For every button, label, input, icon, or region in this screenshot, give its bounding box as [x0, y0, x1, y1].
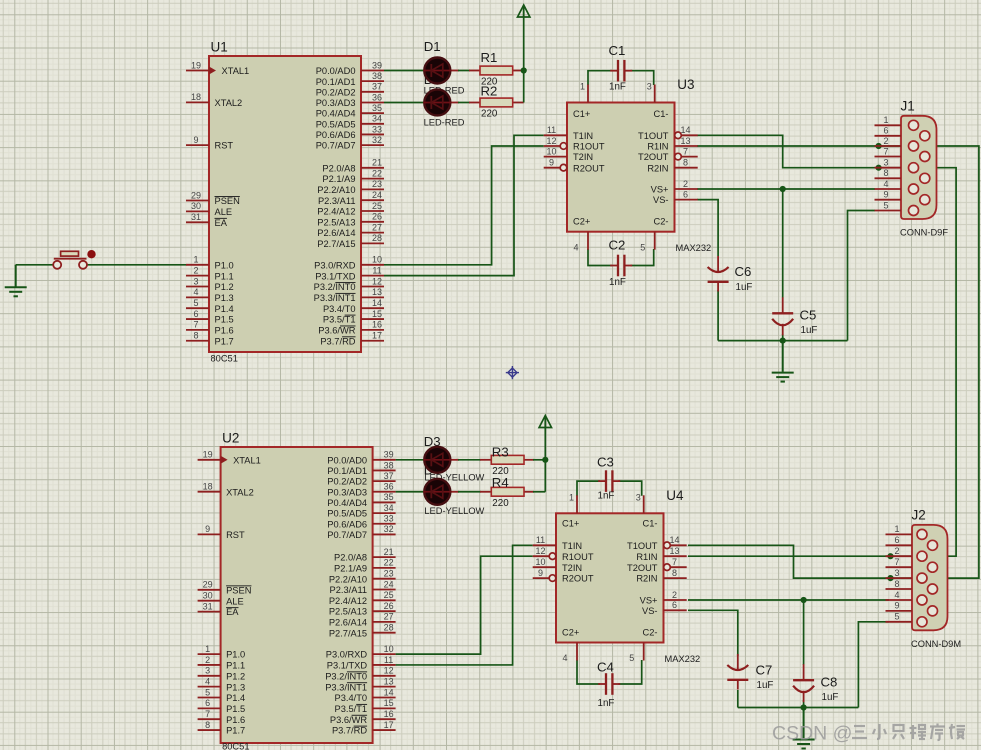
CSDN watermark [772, 723, 965, 745]
svg-text:MAX232: MAX232 [676, 243, 712, 253]
svg-text:C8: C8 [821, 675, 838, 690]
node VS+/C8 junction [801, 597, 807, 603]
U2 pin 12 P3.2/INT0 [373, 675, 396, 677]
svg-text:P1.6: P1.6 [226, 715, 245, 725]
svg-text:39: 39 [372, 60, 382, 70]
wire U4 VS- to C7 [688, 610, 738, 656]
svg-text:U2: U2 [222, 431, 239, 446]
wire R2 right lead to VCC rail [513, 101, 524, 103]
svg-text:P0.0/AD0: P0.0/AD0 [327, 455, 367, 465]
J2 holes [917, 529, 938, 626]
U4 pin 10 T2IN [533, 566, 556, 568]
svg-text:T1OUT: T1OUT [627, 541, 658, 551]
svg-text:P1.3: P1.3 [226, 682, 245, 692]
svg-text:P1.7: P1.7 [215, 336, 234, 346]
U2 pin 35 P0.4/AD4 [373, 501, 396, 503]
U1 pin 37 P0.2/AD2 [361, 91, 384, 93]
U4 pin 1 C1+ stub [576, 495, 578, 513]
svg-text:16: 16 [384, 709, 394, 719]
capacitor C4 1nF [598, 683, 606, 685]
svg-text:220: 220 [481, 108, 498, 119]
MAX232 U4 body [556, 513, 664, 642]
svg-text:38: 38 [372, 71, 382, 81]
svg-text:10: 10 [384, 644, 394, 654]
U1 pin 21 P2.0/A8 [361, 167, 384, 169]
svg-text:C7: C7 [756, 663, 773, 678]
svg-text:XTAL2: XTAL2 [226, 487, 254, 497]
U3 pin 10 T2IN [544, 156, 567, 158]
ground symbol top section [772, 341, 794, 382]
U3 pin 13 R1IN [675, 145, 698, 147]
U4 pin 8 R2IN [664, 577, 687, 579]
wire U2 P0.0 to LED D3 [396, 459, 426, 461]
ground symbol left of button [5, 265, 27, 297]
svg-text:29: 29 [203, 580, 213, 590]
wire U3 pin4 to C2 [588, 249, 612, 266]
svg-text:14: 14 [384, 687, 394, 697]
svg-text:80C51: 80C51 [211, 354, 238, 364]
svg-text:3: 3 [193, 276, 198, 286]
svg-text:CONN-D9M: CONN-D9M [911, 639, 961, 649]
svg-text:1nF: 1nF [598, 698, 615, 709]
svg-text:P0.7/AD7: P0.7/AD7 [327, 530, 367, 540]
U1 pin 17 P3.7/RD [361, 340, 384, 342]
svg-text:P2.3/A11: P2.3/A11 [330, 585, 368, 595]
U2 pin 3 P1.2 [198, 675, 221, 677]
svg-text:R1OUT: R1OUT [562, 552, 594, 562]
svg-text:12: 12 [546, 136, 556, 146]
svg-text:1uF: 1uF [757, 680, 774, 691]
node TXD net at J2 pin2 [887, 553, 893, 559]
wire U4 VS+ to J2 pin4 [688, 599, 889, 601]
U1 pin 26 P2.5/A13 [361, 221, 384, 223]
svg-text:17: 17 [384, 720, 394, 730]
J2 pin 4 stub [886, 599, 913, 601]
svg-text:4: 4 [573, 242, 578, 252]
U1 pin 1 P1.0 [186, 264, 209, 266]
U1 pin 24 P2.3/A11 [361, 199, 384, 201]
svg-text:P0.4/AD4: P0.4/AD4 [316, 109, 356, 119]
connector J2 body [912, 525, 948, 630]
svg-text:P1.7: P1.7 [226, 726, 245, 736]
origin marker [506, 366, 519, 379]
wire C4 to U4 pin5 [618, 660, 641, 684]
svg-text:P0.5/AD5: P0.5/AD5 [327, 509, 367, 519]
svg-text:C1-: C1- [643, 519, 658, 529]
svg-text:6: 6 [883, 126, 888, 136]
J2 pin 3 stub [886, 577, 913, 579]
wire R3 right lead to VCC rail [524, 459, 534, 461]
svg-text:R1IN: R1IN [647, 142, 668, 152]
svg-text:P1.4: P1.4 [226, 693, 245, 703]
wire C7 bottom to ground rail [737, 690, 739, 708]
svg-text:80C51: 80C51 [222, 742, 249, 750]
svg-text:P1.6: P1.6 [215, 326, 234, 336]
svg-text:7: 7 [672, 557, 677, 567]
svg-text:26: 26 [384, 601, 394, 611]
U1 pin 23 P2.2/A10 [361, 188, 384, 190]
svg-text:MAX232: MAX232 [665, 654, 701, 664]
U2 pin 25 P2.4/A12 [373, 599, 396, 601]
U4 pin 13 R1IN [664, 555, 687, 557]
svg-text:28: 28 [372, 233, 382, 243]
svg-text:P1.2: P1.2 [215, 282, 234, 292]
svg-text:13: 13 [669, 546, 679, 556]
capacitor C8 1uF [793, 679, 814, 681]
svg-text:P0.2/AD2: P0.2/AD2 [316, 87, 356, 97]
svg-text:P0.6/AD6: P0.6/AD6 [327, 519, 367, 529]
svg-text:1: 1 [569, 492, 574, 502]
U3 pin 3 C1- stub [654, 85, 656, 103]
svg-text:13: 13 [384, 676, 394, 686]
svg-text:36: 36 [372, 92, 382, 102]
resistor R4 220 [491, 487, 524, 496]
U1 pin 12 P3.2/INT0 [361, 286, 384, 288]
svg-text:P2.7/A15: P2.7/A15 [329, 628, 367, 638]
svg-text:19: 19 [203, 450, 213, 460]
svg-text:12: 12 [535, 546, 545, 556]
U1 pin 14 P3.4/T0 [361, 307, 384, 309]
svg-text:12: 12 [372, 276, 382, 286]
svg-text:25: 25 [384, 590, 394, 600]
power arrow VCC top [518, 5, 530, 17]
U1 pin 16 P3.6/WR [361, 329, 384, 331]
svg-text:P0.0/AD0: P0.0/AD0 [316, 66, 356, 76]
U3 pin 1 C1+ stub [587, 85, 589, 103]
svg-text:27: 27 [372, 222, 382, 232]
svg-text:R2IN: R2IN [647, 163, 668, 173]
wire U4 T1OUT to J2 pin3 [688, 545, 891, 578]
J1 pin 1 stub [875, 124, 902, 126]
svg-text:C1-: C1- [654, 109, 669, 119]
wire button to U1 P1.0 [87, 264, 187, 266]
svg-text:38: 38 [384, 460, 394, 470]
svg-text:CSDN @: CSDN @ [772, 723, 852, 745]
node R1IN net at J1 pin2 [876, 143, 882, 149]
LED D3 LED-YELLOW [423, 447, 451, 473]
svg-text:P1.0: P1.0 [215, 260, 234, 270]
svg-text:P0.1/AD1: P0.1/AD1 [316, 77, 356, 87]
svg-text:11: 11 [536, 535, 545, 545]
wire LED D1 to R1 [451, 70, 459, 72]
svg-text:R2OUT: R2OUT [573, 163, 605, 173]
svg-text:R1OUT: R1OUT [573, 142, 605, 152]
svg-text:LED-YELLOW: LED-YELLOW [424, 506, 484, 516]
svg-text:18: 18 [203, 482, 213, 492]
svg-text:P3.7/RD: P3.7/RD [332, 726, 367, 736]
svg-text:J2: J2 [912, 507, 926, 522]
svg-text:U3: U3 [677, 77, 694, 92]
svg-text:P0.4/AD4: P0.4/AD4 [327, 498, 367, 508]
svg-text:3: 3 [647, 82, 652, 92]
wire U4 pin1 to C3 [577, 481, 600, 496]
J2 pin 1 stub [886, 533, 913, 535]
U2 pin 11 P3.1/TXD [373, 664, 396, 666]
U3 pin 11 T1IN [544, 134, 567, 136]
wire C8 tap from VS+ net [803, 600, 805, 665]
J1 pin 7 stub [875, 156, 902, 158]
svg-text:36: 36 [384, 482, 394, 492]
svg-text:P3.2/INT0: P3.2/INT0 [325, 671, 367, 681]
J1 pin 8 stub [875, 177, 902, 179]
capacitor C5 1uF [772, 312, 793, 314]
U4 pin 12 R1OUT [533, 555, 550, 557]
U2 pin 16 P3.6/WR [373, 718, 396, 720]
U1 pin 11 P3.1/TXD [361, 275, 384, 277]
node R1/VCC junction [521, 67, 527, 73]
svg-text:24: 24 [384, 579, 394, 589]
svg-text:XTAL2: XTAL2 [215, 98, 243, 108]
svg-text:ALE: ALE [226, 596, 244, 606]
U2 pin 6 P1.5 [198, 707, 221, 709]
connector J1 body [901, 116, 937, 219]
LED D1 LED-RED [423, 58, 451, 84]
svg-text:10: 10 [535, 557, 545, 567]
svg-text:P3.2/INT0: P3.2/INT0 [314, 282, 356, 292]
wire U2 P3.0/RXD to U4 R1OUT [396, 556, 533, 654]
node ground rail bottom junction [801, 704, 807, 710]
svg-text:32: 32 [372, 135, 382, 145]
svg-text:P3.1/TXD: P3.1/TXD [315, 271, 356, 281]
wire U4 R1IN to J2 pin2 [688, 555, 891, 557]
wire LED D4 to R4 [451, 491, 459, 493]
U2 pin 30 ALE [198, 600, 221, 602]
capacitor C7 1uF [727, 665, 748, 670]
J2 pin 6 stub [886, 544, 913, 546]
svg-text:C1+: C1+ [562, 519, 579, 529]
U1 pin 13 P3.3/INT1 [361, 296, 384, 298]
svg-text:4: 4 [883, 179, 888, 189]
U4 pin 4 C2+ stub [576, 643, 578, 661]
svg-text:8: 8 [672, 568, 677, 578]
U2 pin 32 P0.7/AD7 [373, 533, 396, 535]
svg-text:12: 12 [384, 666, 394, 676]
svg-text:11: 11 [384, 655, 393, 665]
svg-text:C2+: C2+ [562, 628, 579, 638]
U2 pin 24 P2.3/A11 [373, 589, 396, 591]
U4 pin 11 T1IN [533, 544, 556, 546]
node T1OUT net at J1 pin3 [876, 165, 882, 171]
U1 pin 8 P1.7 [186, 340, 209, 342]
svg-text:8: 8 [193, 331, 198, 341]
svg-text:6: 6 [672, 600, 677, 610]
wire R1 right lead to VCC rail [513, 70, 524, 72]
svg-text:5: 5 [193, 298, 198, 308]
svg-text:19: 19 [191, 60, 201, 70]
wire C2 to U3 pin5 [630, 249, 653, 266]
svg-text:2: 2 [672, 590, 677, 600]
svg-text:P1.4: P1.4 [215, 304, 234, 314]
svg-text:7: 7 [205, 709, 210, 719]
U1 pin 4 P1.3 [186, 296, 209, 298]
svg-text:13: 13 [372, 287, 382, 297]
wire U1 P0.0 to LED D1 [384, 70, 426, 72]
J1 pin 4 stub [875, 188, 902, 190]
svg-text:T2OUT: T2OUT [638, 152, 669, 162]
wire LED D2 to R2 [451, 101, 459, 103]
svg-text:35: 35 [384, 492, 394, 502]
svg-text:P2.3/A11: P2.3/A11 [318, 196, 356, 206]
wire C8 bottom to ground rail [803, 700, 805, 708]
svg-text:P2.2/A10: P2.2/A10 [317, 185, 355, 195]
svg-text:9: 9 [538, 568, 543, 578]
wire U4 pin4 to C4 [577, 660, 600, 684]
svg-text:2: 2 [193, 265, 198, 275]
svg-text:P0.5/AD5: P0.5/AD5 [316, 119, 356, 129]
svg-text:26: 26 [372, 212, 382, 222]
svg-text:P2.1/A9: P2.1/A9 [334, 564, 367, 574]
svg-text:P1.1: P1.1 [226, 661, 245, 671]
node R3/VCC junction [542, 457, 548, 463]
wire VCC vertical rail bottom [544, 420, 546, 492]
svg-text:7: 7 [894, 557, 899, 567]
U4 pin 14 T1OUT [664, 542, 671, 549]
svg-text:5: 5 [629, 653, 634, 663]
svg-text:1uF: 1uF [801, 325, 818, 336]
U2 pin 9 RST [198, 533, 221, 535]
U2 pin 19 XTAL1 [198, 456, 228, 464]
J2 pin 2 stub [886, 555, 913, 557]
node RXD net at J2 pin3 [887, 575, 893, 581]
ground rail top section [718, 340, 847, 342]
U2 pin 2 P1.1 [198, 664, 221, 666]
svg-text:P3.6/WR: P3.6/WR [330, 715, 367, 725]
push button near U1 P1.0 [53, 250, 96, 269]
svg-text:4: 4 [205, 676, 210, 686]
svg-text:35: 35 [372, 103, 382, 113]
svg-text:RST: RST [226, 530, 245, 540]
svg-text:3: 3 [636, 492, 641, 502]
U1 pin 5 P1.4 [186, 307, 209, 309]
svg-text:29: 29 [191, 190, 201, 200]
J1 holes [909, 120, 930, 215]
svg-text:C4: C4 [597, 660, 614, 675]
svg-text:32: 32 [384, 524, 394, 534]
capacitor C3 1nF [598, 480, 606, 482]
svg-text:P0.2/AD2: P0.2/AD2 [327, 477, 367, 487]
svg-text:3: 3 [205, 666, 210, 676]
svg-text:1nF: 1nF [598, 491, 615, 502]
svg-text:18: 18 [191, 92, 201, 102]
U2 pin 23 P2.2/A10 [373, 578, 396, 580]
svg-text:P0.3/AD3: P0.3/AD3 [316, 98, 356, 108]
U2 pin 13 P3.3/INT1 [373, 686, 396, 688]
resistor R2 220 [480, 98, 513, 107]
svg-text:1uF: 1uF [736, 282, 753, 293]
U2 pin 29 PSEN [198, 589, 221, 591]
wire J2 pin5 to ground rail [858, 622, 889, 708]
wire U2 P0.3 to LED D4 [396, 491, 426, 493]
svg-text:2: 2 [894, 546, 899, 556]
U1 pin 35 P0.4/AD4 [361, 112, 384, 114]
U2 pin 14 P3.4/T0 [373, 697, 396, 699]
U1 pin 29 PSEN [186, 200, 209, 202]
svg-text:P3.5/T1: P3.5/T1 [335, 704, 368, 714]
svg-text:1nF: 1nF [609, 277, 626, 288]
svg-text:R1: R1 [481, 50, 498, 65]
U2 pin 26 P2.5/A13 [373, 610, 396, 612]
MAX232 U3 body [567, 103, 675, 232]
U2 pin 28 P2.7/A15 [373, 632, 396, 634]
svg-text:P3.0/RXD: P3.0/RXD [314, 260, 356, 270]
U1 pin 18 XTAL2 [186, 101, 209, 103]
U4 pin 5 C2- stub [643, 643, 645, 661]
U2 pin 36 P0.3/AD3 [373, 491, 396, 493]
J1 pin 3 stub [875, 167, 902, 169]
svg-text:39: 39 [384, 450, 394, 460]
U3 pin 6 VS- [675, 199, 698, 201]
wire R4 right lead to VCC rail [524, 491, 534, 493]
U2 pin 27 P2.6/A14 [373, 621, 396, 623]
svg-text:6: 6 [894, 535, 899, 545]
svg-text:37: 37 [372, 82, 382, 92]
U3 pin 7 T2OUT [675, 153, 682, 160]
capacitor C1 1nF [610, 70, 618, 72]
U4 pin 6 VS- [664, 609, 687, 611]
svg-text:34: 34 [372, 114, 382, 124]
svg-text:R2IN: R2IN [636, 574, 657, 584]
svg-text:C1: C1 [609, 43, 626, 58]
U1 pin 32 P0.7/AD7 [361, 144, 384, 146]
svg-text:21: 21 [384, 547, 394, 557]
U2 pin 22 P2.1/A9 [373, 567, 396, 569]
svg-text:8: 8 [683, 158, 688, 168]
U1 pin 36 P0.3/AD3 [361, 101, 384, 103]
svg-text:VS-: VS- [642, 606, 658, 616]
svg-text:6: 6 [193, 309, 198, 319]
svg-text:5: 5 [883, 200, 888, 210]
svg-text:9: 9 [549, 158, 554, 168]
svg-text:14: 14 [372, 298, 382, 308]
svg-text:P2.6/A14: P2.6/A14 [329, 618, 367, 628]
svg-text:U1: U1 [211, 40, 228, 55]
svg-text:C3: C3 [597, 455, 614, 470]
U2 pin 5 P1.4 [198, 697, 221, 699]
wire C5 bottom to ground rail [782, 334, 784, 341]
svg-text:P3.4/T0: P3.4/T0 [335, 693, 368, 703]
ground symbol bottom section [793, 708, 815, 749]
capacitor C6 1uF [708, 267, 729, 272]
svg-text:1: 1 [580, 82, 585, 92]
U2 pin 38 P0.1/AD1 [373, 469, 396, 471]
U4 pin 2 VS+ [664, 599, 687, 601]
U2 pin 34 P0.5/AD5 [373, 512, 396, 514]
ground rail bottom section [738, 707, 859, 709]
U3 pin 2 VS+ [675, 188, 698, 190]
U1 pin 9 RST [186, 144, 209, 146]
svg-text:P1.2: P1.2 [226, 671, 245, 681]
svg-text:P2.0/A8: P2.0/A8 [334, 553, 367, 563]
svg-text:8: 8 [894, 579, 899, 589]
J1 pin 5 stub [875, 210, 902, 212]
U1 pin 22 P2.1/A9 [361, 178, 384, 180]
wire U1 P0.3 to LED D2 [384, 101, 426, 103]
svg-text:C2+: C2+ [573, 216, 590, 226]
svg-text:P2.5/A13: P2.5/A13 [317, 217, 355, 227]
svg-text:7: 7 [683, 146, 688, 156]
svg-text:P3.1/TXD: P3.1/TXD [327, 661, 368, 671]
capacitor C2 1nF [610, 265, 618, 267]
svg-text:P3.6/WR: P3.6/WR [318, 326, 355, 336]
svg-text:8: 8 [205, 720, 210, 730]
svg-text:9: 9 [883, 190, 888, 200]
svg-text:PSEN: PSEN [226, 585, 251, 595]
U2 pin 1 P1.0 [198, 653, 221, 655]
svg-text:6: 6 [683, 189, 688, 199]
svg-text:P2.7/A15: P2.7/A15 [317, 239, 355, 249]
svg-text:U4: U4 [666, 488, 684, 503]
J1 pin 6 stub [875, 135, 902, 137]
